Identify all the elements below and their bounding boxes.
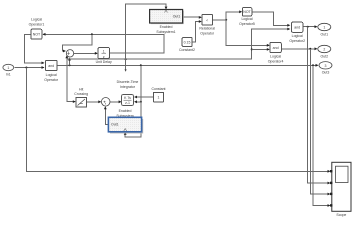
wire Logical Operator4 output to Out2 (281, 47, 317, 50)
wire line3 branch up into sum gate bottom (68, 58, 71, 66)
wire sum gate output to Unit Delay (74, 52, 98, 55)
wire line2 branch to Logical Operator4 input2 (252, 48, 270, 51)
node line3 reset branch (140, 64, 142, 66)
node line2 vertical junction (125, 58, 127, 60)
wire line2 feedback (67, 28, 290, 60)
wire line3 branch down to integrator and enable (124, 65, 141, 137)
discrete-time integrator block (117, 80, 139, 105)
wire RO junction down to Logical Operator4 input1 (226, 20, 270, 47)
wire Logical Operator1 output to Logical Operator input1 (25, 34, 45, 64)
wire Logical Operator2 output to Out1 (303, 25, 318, 28)
round sum block (101, 98, 110, 107)
svg-text:Logical: Logical (292, 34, 303, 38)
logical operator AND block Logical Operator4 (268, 43, 284, 64)
svg-text:K Ts: K Ts (124, 96, 131, 100)
svg-text:1: 1 (323, 26, 325, 30)
svg-text:Operator: Operator (200, 32, 215, 36)
node In1 branch junction (25, 67, 27, 69)
wire loop branch down to sum gate input1 (63, 34, 92, 52)
relational operator block (199, 15, 215, 36)
outport Out3 (319, 62, 332, 75)
logical operator AND block Logical Operator (44, 60, 59, 82)
svg-text:Unit Delay: Unit Delay (96, 60, 112, 64)
wire Unit Delay output loop to Logical Operator1 input (43, 33, 164, 53)
node line2 and1 branch (251, 48, 253, 50)
svg-text:NOT: NOT (243, 10, 251, 14)
wire Logical Operator5 output to Logical Operator2 input1 (252, 12, 290, 27)
svg-text:Operator: Operator (44, 78, 59, 82)
wire line2 up over top to Enabled Subsystem1 enable (126, 4, 168, 59)
svg-text:Operator5: Operator5 (239, 22, 255, 26)
svg-text:3: 3 (325, 64, 327, 68)
logical operator AND block Logical Operator2 (289, 22, 305, 43)
outport Out2 (318, 45, 331, 58)
logical operator NOT block Logical Operator1 (29, 18, 45, 40)
wire In1 output (15, 66, 45, 69)
unit delay block (96, 48, 112, 64)
node integrator right junction (140, 101, 142, 103)
enabled subsystem1 block (150, 10, 184, 35)
constant block Constant2 (179, 38, 195, 53)
svg-text:Out1: Out1 (111, 123, 119, 127)
svg-text:1: 1 (103, 49, 105, 53)
wire RO junction up to Logical Operator5 (226, 10, 242, 19)
svg-text:z: z (103, 55, 105, 59)
svg-text:Hit: Hit (79, 88, 83, 92)
svg-text:<: < (206, 18, 208, 22)
node out3 scope branch (312, 64, 314, 66)
wire line2 short stub down (125, 59, 127, 72)
node out2 scope branch (309, 48, 311, 50)
hit crossing block (74, 88, 88, 107)
enabled subsystem block (selected, blue) (108, 109, 143, 134)
svg-text:Logical: Logical (270, 55, 281, 59)
wire Constant to integrator right (134, 96, 153, 99)
wire In1 branch down to Scope input1 (26, 68, 330, 173)
scope block (330, 162, 351, 217)
svg-text:Discrete-Time: Discrete-Time (117, 80, 139, 84)
wire Enabled Subsystem1 output to Relational Operator input1 (183, 16, 202, 19)
inport In1 (3, 64, 14, 76)
svg-text:0.15: 0.15 (184, 40, 191, 44)
svg-text:Out1: Out1 (321, 32, 329, 36)
svg-text:Constant: Constant (151, 87, 165, 91)
svg-text:Crossing: Crossing (74, 92, 88, 96)
node loop branch junction (91, 33, 93, 35)
wire line2 down to Hit Crossing input (67, 59, 76, 103)
svg-text:Relational: Relational (199, 27, 215, 31)
node RO output junction (225, 19, 227, 21)
svg-text:Logical: Logical (46, 73, 57, 77)
svg-text:Out3: Out3 (322, 71, 330, 75)
logical operator NOT block Logical Operator5 (239, 8, 255, 26)
svg-text:Enabled: Enabled (119, 109, 132, 113)
svg-text:Operator4: Operator4 (268, 60, 284, 64)
svg-text:Logical: Logical (241, 17, 252, 21)
node out1 scope branch (307, 26, 309, 28)
svg-text:Logical: Logical (31, 18, 42, 22)
svg-text:Scope: Scope (336, 213, 346, 217)
wire Hit Crossing output to round sum (87, 100, 102, 103)
outport Out1 (318, 23, 331, 36)
svg-text:Out1: Out1 (173, 15, 181, 19)
svg-text:and: and (294, 26, 300, 30)
svg-text:and: and (48, 64, 54, 68)
node line3 gate branch (69, 64, 71, 66)
svg-text:Enabled: Enabled (160, 25, 173, 29)
svg-text:1: 1 (7, 66, 9, 70)
wire Constant2 to Relational Operator input2 (192, 20, 202, 42)
svg-text:Operator1: Operator1 (29, 23, 45, 27)
svg-text:2: 2 (323, 48, 325, 52)
svg-text:Integrator: Integrator (120, 85, 136, 89)
svg-text:and: and (273, 46, 279, 50)
wire Relational Operator output (213, 19, 227, 21)
wire Logical Operator output line3 to Out3 (57, 64, 319, 67)
wire line2 up into sum gate input2 (65, 55, 68, 59)
svg-text:NOT: NOT (33, 33, 41, 37)
constant block Constant (151, 87, 165, 102)
svg-text:Subsystem1: Subsystem1 (156, 30, 175, 34)
wire round sum output to integrator (110, 100, 121, 103)
svg-text:Out2: Out2 (321, 54, 329, 58)
svg-text:In1: In1 (6, 73, 11, 77)
wire out3 branch down to Scope input4 (313, 65, 331, 207)
wire out2 branch down to Scope input3 (310, 49, 330, 196)
svg-text:1: 1 (158, 96, 160, 100)
svg-text:z-1: z-1 (125, 101, 130, 105)
wire out1 branch down to Scope input2 (308, 27, 331, 185)
round sum gate (66, 50, 73, 57)
svg-text:Operator2: Operator2 (289, 39, 305, 43)
svg-text:Constant2: Constant2 (179, 48, 195, 52)
wire Enabled Subsystem output up to round sum bottom (104, 106, 109, 124)
wire integrator right input stub (134, 100, 141, 103)
